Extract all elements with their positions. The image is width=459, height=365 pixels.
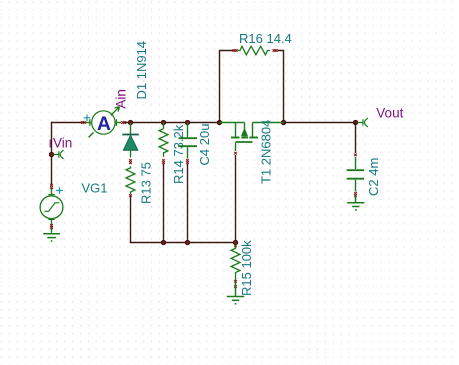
- resistor R14: [159, 123, 168, 157]
- ground below C2: [347, 196, 364, 210]
- node junction dot D1 top: [128, 120, 132, 124]
- resistor R15 top pin X mark: [234, 245, 237, 248]
- wire: R16 left leg: [220, 51, 234, 123]
- node junction dot C4 top: [185, 120, 189, 124]
- wire: R14 bottom to bus: [163, 164, 165, 243]
- capacitor C2 top pin X mark: [354, 154, 357, 157]
- voltage generator VG1: [40, 189, 63, 233]
- wire: main rail ammeter to T1 drain area: [124, 122, 220, 124]
- capacitor C2 bottom pin X mark: [354, 192, 357, 197]
- transistor T1 bulk arrow: [241, 128, 247, 136]
- svg-text:R15 100k: R15 100k: [239, 240, 254, 296]
- svg-text:Vout: Vout: [376, 106, 403, 121]
- svg-text:R13 75: R13 75: [138, 162, 153, 204]
- resistor R14 bottom pin X mark: [162, 159, 165, 164]
- svg-text:Ain: Ain: [113, 89, 128, 109]
- node Vout open-pin hook: [358, 118, 368, 127]
- ammeter U1 current arrow: [111, 107, 120, 116]
- ground below R15: [227, 282, 245, 304]
- resistor R16 left pin X marks: [233, 49, 238, 52]
- resistor R16 right pin X marks: [273, 49, 278, 52]
- svg-text:C2 4m: C2 4m: [366, 158, 381, 196]
- wire: Vin corner to ammeter left pin: [51, 122, 84, 124]
- svg-text:T1 2N6804: T1 2N6804: [258, 120, 273, 184]
- node junction dot R16 left leg: [217, 120, 221, 124]
- node Vin junction dot: [49, 152, 53, 156]
- resistor R15: [231, 245, 240, 281]
- voltage generator VG1 bottom pin X mark: [50, 224, 53, 229]
- wire: bottom bus: [130, 242, 236, 244]
- voltage generator VG1 plus terminal mark: [56, 187, 63, 194]
- node Vin label leader tick: [49, 140, 51, 148]
- wire: R13 bottom to bus: [130, 197, 132, 243]
- capacitor C2: [347, 157, 365, 192]
- svg-text:VG1: VG1: [82, 181, 108, 196]
- capacitor C4 bottom pin X mark: [186, 159, 189, 164]
- voltage generator VG1 pin X marks top: [50, 184, 53, 189]
- transistor T1 (MOSFET): [220, 123, 284, 152]
- node Vout junction dot: [353, 120, 357, 124]
- wire: Vin vertical down to VG1 top: [51, 122, 53, 185]
- svg-text:Vin: Vin: [53, 136, 72, 151]
- ground below VG1: [43, 234, 60, 241]
- wire: R16 right leg: [278, 51, 284, 123]
- svg-text:A: A: [97, 113, 111, 135]
- svg-text:D1 1N914: D1 1N914: [134, 41, 149, 100]
- node junction dot R14 top: [161, 120, 165, 124]
- resistor R13: [126, 166, 135, 194]
- wire: Vout down to C2: [355, 123, 357, 154]
- capacitor C4: [179, 123, 198, 159]
- ammeter U1 left pin X mark: [81, 121, 86, 124]
- diode D1 bottom pin X marks: [129, 159, 132, 164]
- wire: right rail to Vout: [284, 122, 357, 124]
- wire: T1 gate down to bus: [235, 155, 237, 243]
- diode D1: [122, 123, 139, 158]
- ammeter U1 plus terminal mark: [84, 115, 91, 122]
- node junction dot R16 right leg: [281, 120, 285, 124]
- svg-text:R16 14.4: R16 14.4: [239, 31, 292, 46]
- node junction dot bus R15/gate: [233, 240, 237, 244]
- resistor R13 bottom pin X mark: [129, 194, 132, 197]
- svg-text:C4 20u: C4 20u: [197, 124, 212, 166]
- ammeter U1 right pin X mark: [121, 121, 126, 124]
- node junction dot bus R14: [161, 240, 165, 244]
- node junction dot bus C4: [185, 240, 189, 244]
- node Vin open-pin hook: [54, 150, 64, 159]
- resistor R16: [238, 46, 271, 55]
- resistor R15 bottom pin X marks: [234, 280, 237, 288]
- wire: C4 bottom to bus: [187, 164, 189, 243]
- ammeter U1: [86, 111, 122, 138]
- transistor T1 gate pin X mark: [234, 152, 237, 155]
- svg-text:R14 73.2k: R14 73.2k: [171, 124, 186, 184]
